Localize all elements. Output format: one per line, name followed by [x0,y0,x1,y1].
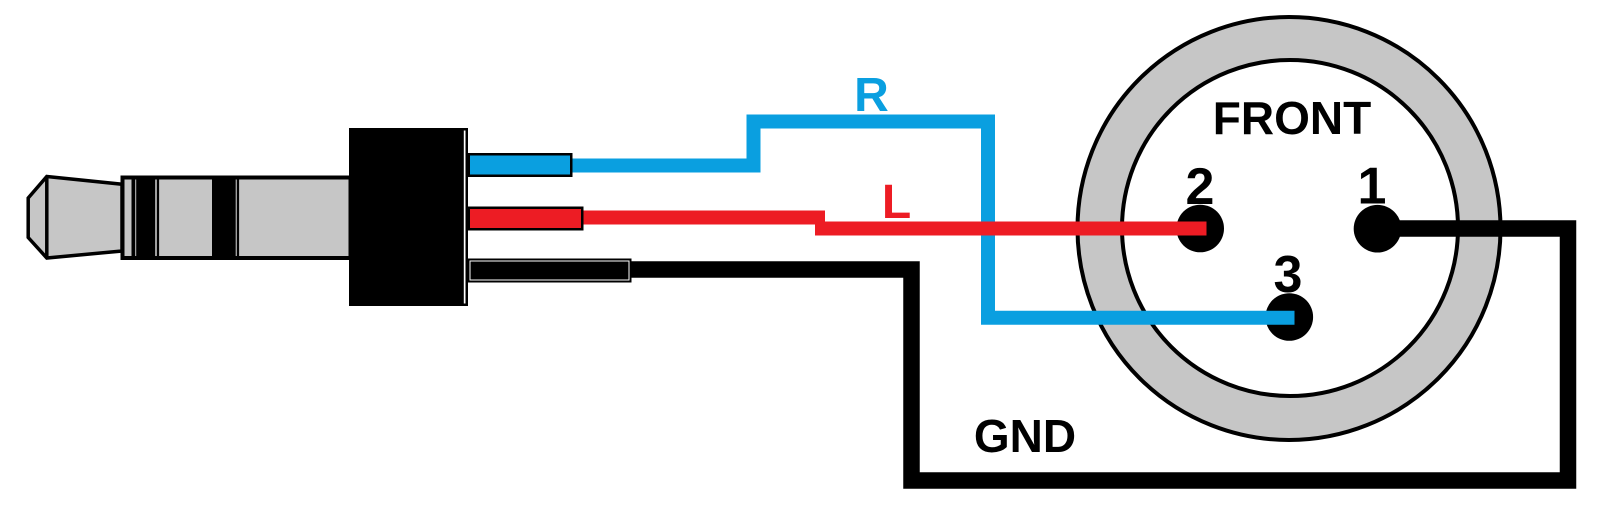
XLR connector inner face [1122,60,1458,396]
svg-text:R: R [854,69,889,122]
svg-text:FRONT: FRONT [1213,92,1371,144]
red wire stub at plug [469,208,583,230]
XLR pin 1 [1354,205,1402,253]
wire blue R [570,122,1295,318]
svg-text:GND: GND [974,410,1076,462]
XLR pin 2 [1176,205,1224,253]
jack plug insulator band 2 [212,176,236,261]
black wire stub inner white outline [470,261,629,280]
wire red L upper segment [578,211,825,225]
jack plug body [349,128,468,306]
svg-text:3: 3 [1274,246,1303,304]
jack plug insulator band 1 thin left line [132,176,136,261]
jack plug tip fold line [45,177,49,259]
blue wire stub at plug [469,154,572,176]
jack plug insulator band 2 thin right line [237,176,239,261]
black wire stub at plug [469,260,631,282]
wire black GND loop [625,229,1568,481]
XLR connector outer ring [1078,17,1501,440]
jack plug insulator band 1 thin right line [157,176,159,261]
wire red L lower segment [815,222,1207,236]
jack plug shaft [123,178,351,259]
jack plug body highlight line [464,131,466,304]
jack plug insulator band 1 [136,176,155,261]
XLR pin 3 [1266,293,1314,341]
svg-text:L: L [882,176,911,229]
jack plug tip [28,177,122,259]
svg-text:2: 2 [1186,158,1215,216]
svg-text:1: 1 [1358,158,1387,216]
